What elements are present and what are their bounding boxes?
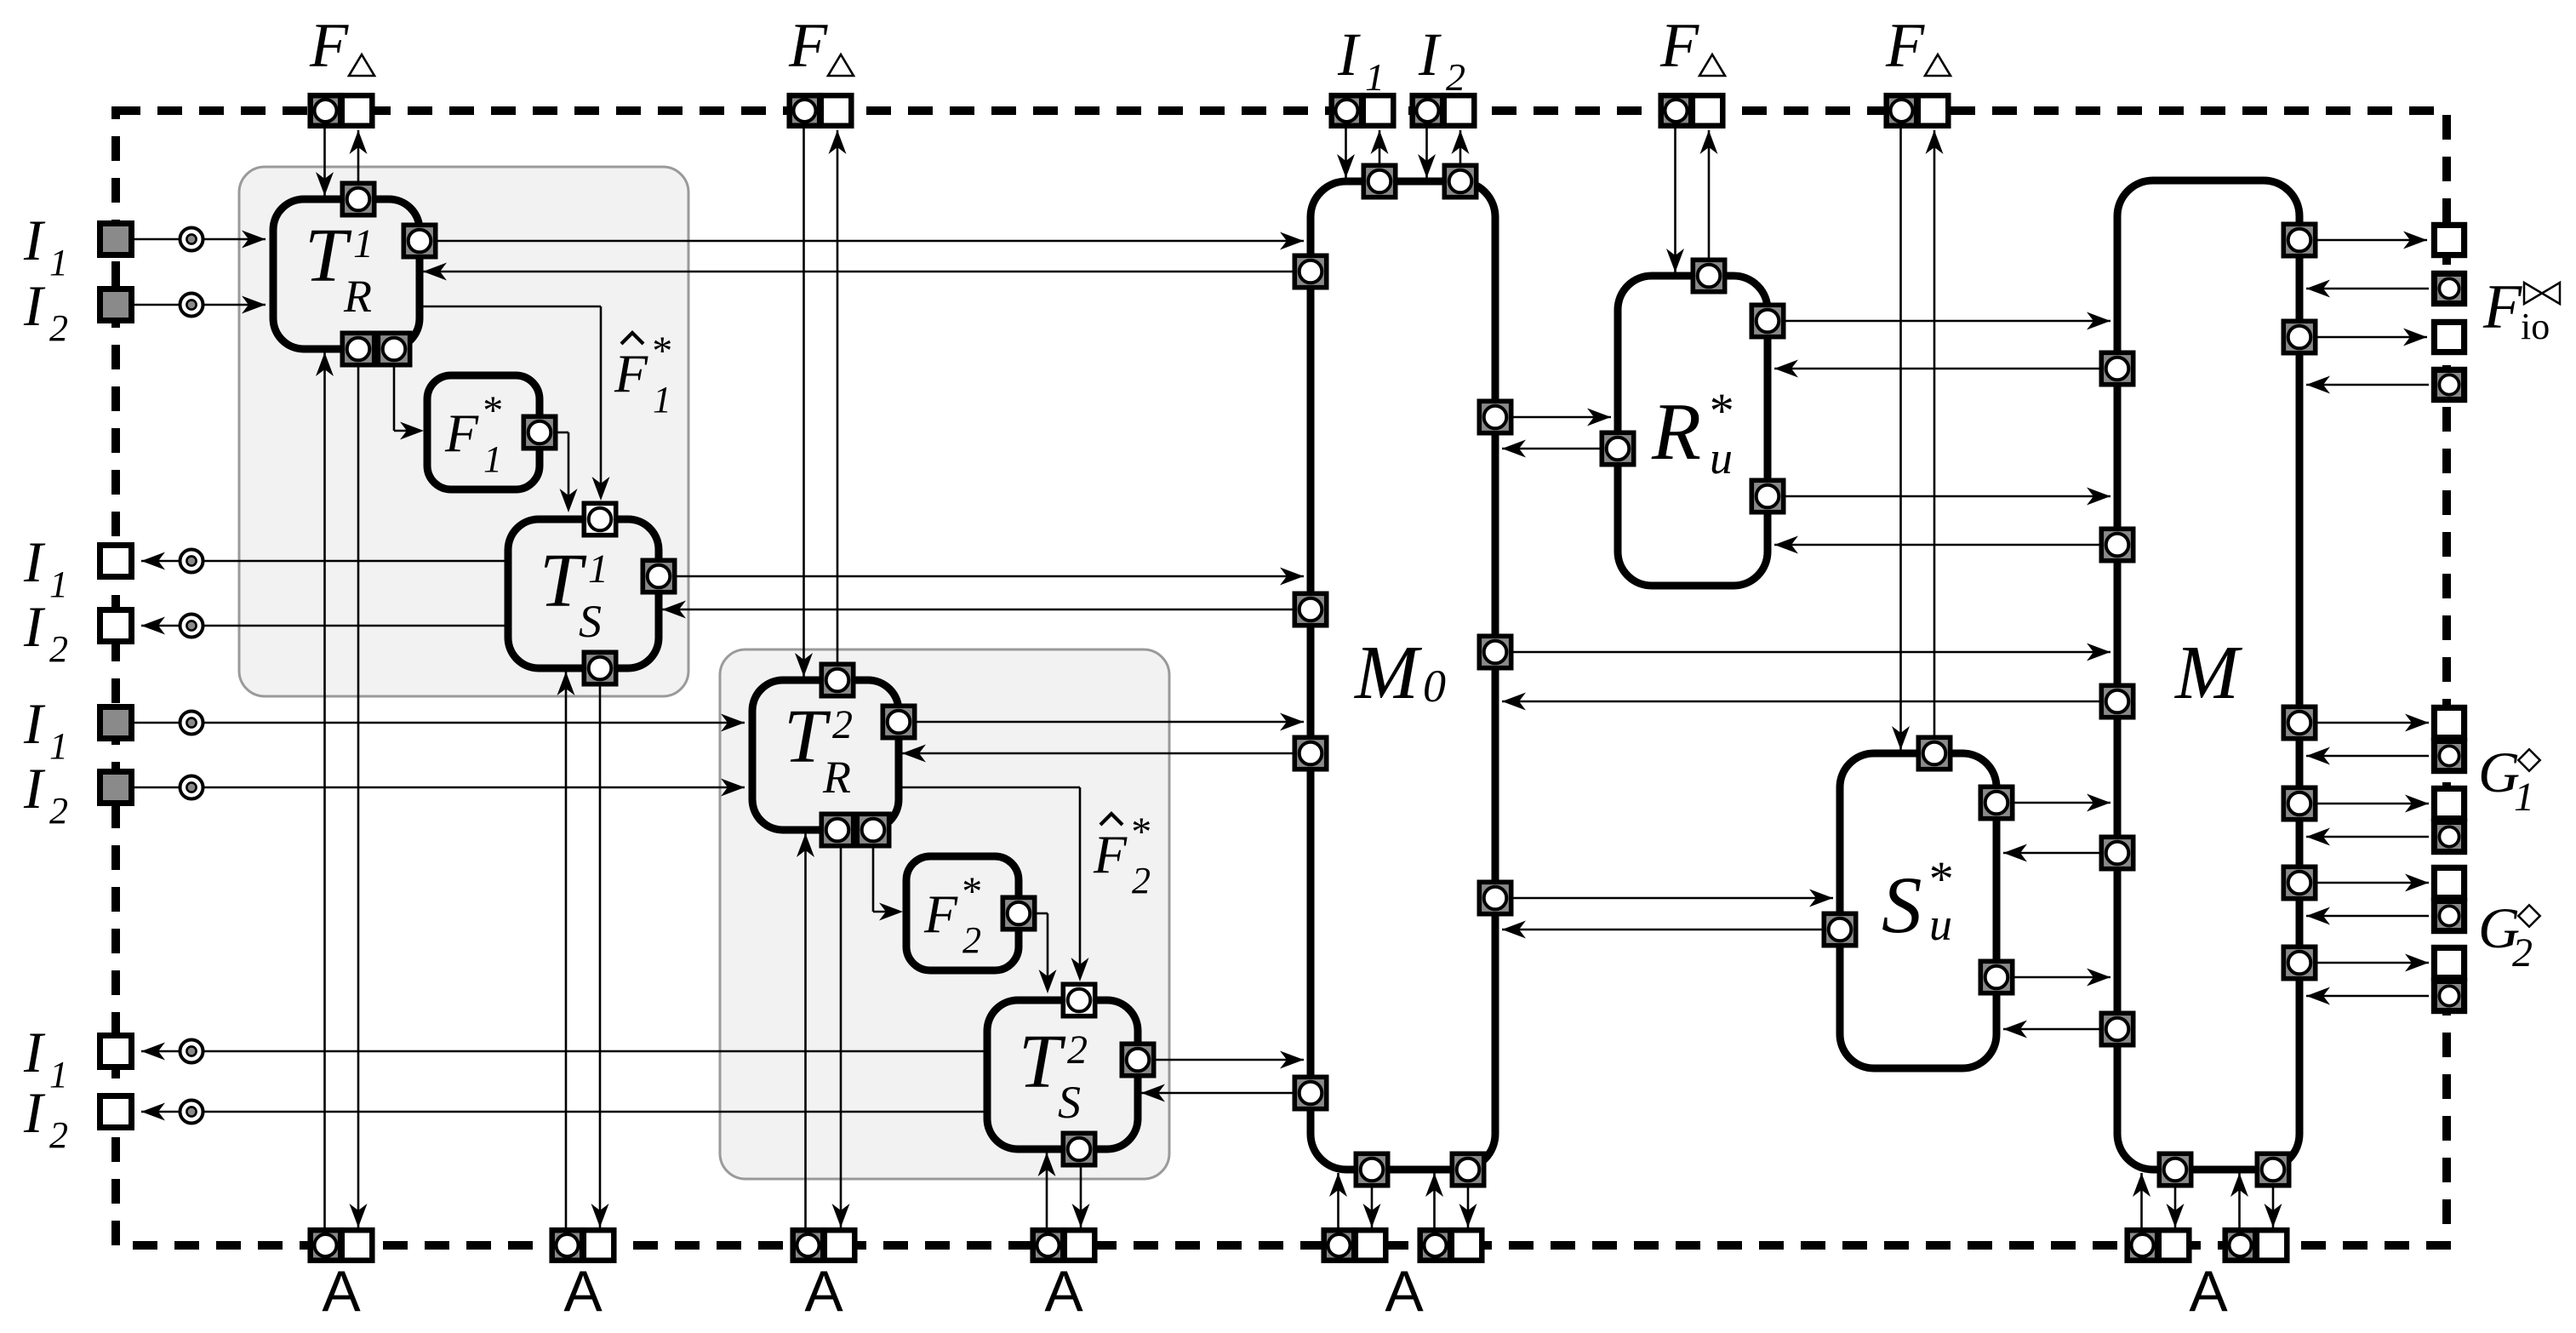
boundary port Ftri2 bbox=[790, 95, 820, 126]
svg-text:A: A bbox=[563, 1259, 603, 1324]
wire M0 down to A5 bbox=[1371, 1187, 1374, 1227]
wire M to G1 out2 bbox=[2317, 803, 2429, 805]
port TR2 bottom 1 bbox=[821, 814, 853, 845]
svg-text:R: R bbox=[1651, 386, 1701, 477]
svg-text:2: 2 bbox=[49, 1114, 68, 1156]
svg-text:0: 0 bbox=[1423, 661, 1446, 712]
svg-text:u: u bbox=[1929, 899, 1952, 950]
port M0 left 2 bbox=[1294, 593, 1326, 625]
wire Ru to M0 in bbox=[1502, 448, 1600, 450]
port M bottom 1 bbox=[2159, 1153, 2190, 1185]
boundary port G2 out1 bbox=[2434, 867, 2464, 897]
wire A2 up to TS1 bbox=[565, 672, 568, 1228]
svg-text:F: F bbox=[444, 403, 479, 463]
boundary port A3 bbox=[793, 1230, 824, 1261]
wire M0 to TS1 in bbox=[662, 609, 1293, 611]
port M0 left 4 bbox=[1294, 1077, 1326, 1108]
boundary port I2 top bbox=[1413, 95, 1443, 126]
boundary square I2 row8 bbox=[100, 1096, 132, 1128]
wire M0 up to I1top bbox=[1379, 130, 1381, 163]
svg-text:I: I bbox=[23, 529, 46, 594]
wire F2hat TR2 to TS2 port bbox=[899, 787, 1080, 789]
boundary square I1 row1 bbox=[100, 224, 132, 255]
svg-text:2: 2 bbox=[1132, 860, 1151, 901]
port M left 3 bbox=[2101, 685, 2133, 717]
port M left 5 bbox=[2101, 1013, 2133, 1044]
wire TR2 to F2 feed bbox=[872, 848, 875, 912]
svg-text:S: S bbox=[1882, 860, 1922, 950]
svg-text:I: I bbox=[23, 691, 46, 756]
boundary port A6 bbox=[1420, 1230, 1451, 1261]
wire Ru up to Ftri3 bbox=[1708, 130, 1711, 258]
svg-text:2: 2 bbox=[832, 702, 853, 747]
svg-text:1: 1 bbox=[2514, 775, 2534, 820]
port TS1 bottom bbox=[584, 652, 615, 684]
svg-text:*: * bbox=[481, 388, 501, 433]
svg-text:F: F bbox=[1093, 824, 1128, 884]
svg-text:R: R bbox=[343, 271, 372, 322]
port TS2 bottom bbox=[1063, 1133, 1094, 1164]
wire Fio to M in1 bbox=[2306, 288, 2429, 290]
svg-text:F: F bbox=[1885, 11, 1925, 81]
node odot row7 bbox=[180, 1040, 203, 1063]
wire G2 to M in2 bbox=[2306, 995, 2429, 998]
wire F2 out to TS2 bbox=[1037, 913, 1048, 915]
wire A5 up to M0 bbox=[1337, 1173, 1339, 1228]
port M left 4 bbox=[2101, 837, 2133, 868]
wire TS2 to I2 row8 bbox=[141, 1111, 987, 1113]
boundary port G1 in1 bbox=[2434, 741, 2464, 770]
port TR1 bottom 1 bbox=[342, 333, 374, 364]
machine Ru bbox=[1618, 276, 1768, 586]
port TS1 top (white) bbox=[584, 503, 615, 535]
wire M to Su in2 bbox=[2003, 1028, 2099, 1031]
boundary port A7 bbox=[2128, 1230, 2158, 1261]
svg-text:*: * bbox=[650, 329, 671, 374]
wire A1 up to TR1 bbox=[323, 352, 326, 1228]
wire I2 row6 to TR2 bbox=[132, 787, 745, 789]
port Su right 1 bbox=[1980, 787, 2012, 818]
boundary port G2 in1 bbox=[2434, 901, 2464, 930]
machine F2star bbox=[906, 856, 1019, 970]
wire TS1 down to A2 bbox=[599, 686, 602, 1227]
wire Ftri3 down to Ru bbox=[1674, 128, 1676, 272]
svg-text:S: S bbox=[1058, 1077, 1081, 1128]
wire M to Su in bbox=[2003, 852, 2099, 855]
port TR1 right bbox=[403, 225, 435, 256]
port M0 bottom 2 bbox=[1452, 1153, 1483, 1185]
svg-text:2: 2 bbox=[2512, 930, 2533, 975]
node odot row1 bbox=[180, 228, 203, 251]
svg-text:F: F bbox=[923, 884, 958, 944]
wire M0 out to M bbox=[1513, 651, 2110, 654]
svg-text:1: 1 bbox=[49, 725, 68, 767]
port TR1 bottom 2 bbox=[378, 333, 409, 364]
svg-text:2: 2 bbox=[1446, 55, 1465, 99]
wire M to G1 out1 bbox=[2317, 722, 2429, 724]
svg-text:I: I bbox=[23, 1020, 46, 1084]
svg-text:I: I bbox=[1337, 20, 1361, 89]
port Su right 2 bbox=[1980, 961, 2012, 993]
boundary port G1 out2 bbox=[2434, 788, 2464, 818]
svg-text:1: 1 bbox=[49, 1054, 68, 1096]
machine TS1 bbox=[508, 519, 659, 668]
svg-text:A: A bbox=[322, 1259, 361, 1324]
boundary port A1 bbox=[311, 1230, 341, 1261]
port TS2 right bbox=[1122, 1044, 1153, 1075]
boundary square I1 row5 bbox=[100, 707, 132, 739]
boundary square I2 row2 bbox=[100, 289, 132, 321]
machine TS2 bbox=[987, 1000, 1138, 1149]
wire G2 to M in1 bbox=[2306, 915, 2429, 918]
wire M to M0 in bbox=[1502, 701, 2099, 703]
port M0 left 1 bbox=[1294, 255, 1326, 287]
boundary port G1 in2 bbox=[2434, 821, 2464, 851]
wire I1 row5 to TR2 bbox=[132, 722, 745, 724]
svg-text:1: 1 bbox=[1365, 55, 1385, 99]
node odot row4 bbox=[180, 615, 203, 638]
wire M0 to TR2 in bbox=[902, 752, 1293, 755]
boundary port A2 bbox=[552, 1230, 583, 1261]
boundary port Fio in1 bbox=[2434, 273, 2464, 303]
wire TR1 down to A1 bbox=[357, 367, 360, 1227]
port M0 left 3 bbox=[1294, 737, 1326, 769]
boundary port G1 out1 bbox=[2434, 707, 2464, 737]
port Ru right 2 bbox=[1751, 480, 1783, 512]
wire G1 to M in1 bbox=[2306, 755, 2429, 758]
port M0 top 2 bbox=[1444, 165, 1476, 197]
wire TR1 to F1 feed bbox=[393, 367, 396, 431]
svg-text:2: 2 bbox=[1067, 1027, 1088, 1073]
wire M0 down to A6 bbox=[1467, 1187, 1470, 1227]
port M right 5 bbox=[2283, 867, 2315, 898]
svg-text:2: 2 bbox=[49, 307, 68, 349]
wire TS1 to I1 row3 bbox=[141, 560, 508, 563]
boundary port G2 out2 bbox=[2434, 947, 2464, 977]
wire TR2 down to A3 bbox=[840, 848, 842, 1227]
boundary port A4 bbox=[1033, 1230, 1064, 1261]
node odot row5 bbox=[180, 712, 203, 735]
wire Su up to Ftri4 bbox=[1933, 130, 1936, 735]
wire I1 row1 to TR1 bbox=[132, 238, 266, 241]
svg-text:1: 1 bbox=[49, 564, 68, 605]
svg-text:*: * bbox=[1129, 810, 1150, 855]
node odot row2 bbox=[180, 294, 203, 317]
svg-text:A: A bbox=[2189, 1259, 2228, 1324]
port TR2 top bbox=[821, 664, 853, 695]
wire TS1 to I2 row4 bbox=[141, 625, 508, 627]
port M0 right 2 bbox=[1479, 636, 1511, 667]
machine Su bbox=[1840, 753, 1996, 1068]
svg-text:I: I bbox=[1418, 20, 1442, 89]
wire A4 up to TS2 bbox=[1046, 1153, 1048, 1228]
boundary port Ftri4 bbox=[1887, 95, 1917, 126]
boundary port A5 bbox=[1324, 1230, 1355, 1261]
boundary square I1 row3 bbox=[100, 546, 132, 577]
wire I2top down to M0 bbox=[1425, 128, 1428, 178]
wire M0 up to I2top bbox=[1459, 130, 1462, 163]
group box 1 (T1 stage) bbox=[239, 167, 688, 696]
wire M to Ru in2 bbox=[1774, 544, 2099, 546]
svg-text:I: I bbox=[23, 594, 46, 659]
wire Ru out2 to M bbox=[1785, 495, 2110, 498]
wire TR2 out to M0 bbox=[899, 721, 1304, 724]
wire Ru out to M bbox=[1785, 320, 2110, 323]
boundary port Fio out1 bbox=[2434, 225, 2464, 255]
port M right 3 bbox=[2283, 707, 2315, 738]
port TS1 right bbox=[643, 560, 674, 592]
port M0 bottom 1 bbox=[1356, 1153, 1387, 1185]
svg-text:I: I bbox=[23, 208, 46, 272]
wire Su out to M bbox=[2014, 802, 2110, 804]
boundary port Fio out2 bbox=[2434, 322, 2464, 352]
port M right 6 bbox=[2283, 947, 2315, 978]
wire TR1 out to M0 bbox=[420, 240, 1304, 243]
port M0 right 3 bbox=[1479, 882, 1511, 913]
wire Fio to M in2 bbox=[2306, 384, 2429, 386]
port TR2 right bbox=[882, 706, 914, 737]
wire TS2 down to A4 bbox=[1080, 1167, 1082, 1227]
wire M to G2 out1 bbox=[2317, 882, 2429, 884]
boundary port Ftri1 bbox=[311, 95, 341, 126]
wire M0 to TS2 in bbox=[1141, 1092, 1293, 1095]
wire A3 up to TR2 bbox=[804, 833, 807, 1228]
machine M0 bbox=[1311, 181, 1495, 1170]
port F1star right bbox=[523, 416, 555, 448]
boundary port G2 in2 bbox=[2434, 981, 2464, 1010]
svg-text:A: A bbox=[804, 1259, 843, 1324]
port M0 top 1 bbox=[1363, 165, 1395, 197]
port TS2 top (white) bbox=[1063, 984, 1094, 1015]
port Ru right 1 bbox=[1751, 305, 1783, 336]
svg-text:1: 1 bbox=[353, 221, 374, 266]
port F2star right bbox=[1002, 897, 1034, 929]
svg-text:1: 1 bbox=[49, 242, 68, 283]
wire G1 to M in2 bbox=[2306, 836, 2429, 838]
svg-text:A: A bbox=[1385, 1259, 1424, 1324]
port M right 4 bbox=[2283, 787, 2315, 819]
wire I1top down to M0 bbox=[1345, 128, 1347, 178]
wire TR2 up to Ftri2 bbox=[837, 130, 839, 662]
node odot row3 bbox=[180, 550, 203, 573]
svg-text:F: F bbox=[788, 11, 828, 81]
svg-text:F: F bbox=[614, 343, 648, 403]
wire F1 out to TS1 bbox=[557, 432, 568, 434]
wire M to Fio out2 bbox=[2317, 336, 2427, 339]
svg-text:M: M bbox=[1353, 631, 1423, 715]
wire I2 row2 to TR1 bbox=[132, 304, 266, 306]
svg-text:I: I bbox=[23, 756, 46, 821]
node odot row8 bbox=[180, 1101, 203, 1124]
wire TS1 out to M0 bbox=[659, 575, 1304, 578]
port M right 1 bbox=[2283, 224, 2315, 255]
port Su top bbox=[1918, 737, 1950, 769]
port M left 1 bbox=[2101, 352, 2133, 384]
svg-text:*: * bbox=[1707, 383, 1732, 438]
wire M down to A7 bbox=[2174, 1187, 2177, 1227]
wire A6 up to M0 bbox=[1433, 1173, 1436, 1228]
wire TS2 to I1 row7 bbox=[141, 1050, 987, 1053]
svg-text:io: io bbox=[2521, 306, 2550, 347]
node odot row6 bbox=[180, 776, 203, 799]
svg-text:2: 2 bbox=[962, 919, 981, 961]
machine TR1 bbox=[273, 199, 420, 349]
wire M to Fio out1 bbox=[2317, 239, 2427, 242]
svg-text:2: 2 bbox=[49, 628, 68, 670]
svg-text:F: F bbox=[1659, 11, 1699, 81]
wire M0 to Ru in bbox=[1513, 416, 1611, 419]
wire M to G2 out2 bbox=[2317, 962, 2429, 964]
boundary port I1 top bbox=[1332, 95, 1362, 126]
wire M0 to Su in bbox=[1513, 897, 1833, 900]
boundary port A8 bbox=[2225, 1230, 2256, 1261]
wire F1hat TR1 to TS1 port bbox=[420, 306, 601, 308]
wire TS2 out to M0 bbox=[1138, 1059, 1304, 1061]
boundary port Ftri3 bbox=[1661, 95, 1692, 126]
svg-text:1: 1 bbox=[483, 438, 502, 480]
boundary square I2 row4 bbox=[100, 610, 132, 642]
port Ru left bbox=[1602, 432, 1633, 464]
svg-text:1: 1 bbox=[653, 379, 671, 420]
port M0 right 1 bbox=[1479, 401, 1511, 432]
port M right 2 bbox=[2283, 321, 2315, 352]
port M bottom 2 bbox=[2257, 1153, 2288, 1185]
port Su left bbox=[1824, 913, 1855, 945]
wire Su to M0 in bbox=[1502, 929, 1822, 931]
wire M0 to TR1 in bbox=[423, 271, 1293, 273]
svg-text:*: * bbox=[960, 869, 980, 914]
machine M bbox=[2117, 180, 2299, 1170]
wire Ftri1 down to TR1 bbox=[323, 128, 326, 196]
port TR1 top bbox=[342, 183, 374, 215]
boundary port Fio in2 bbox=[2434, 369, 2464, 399]
port M left 2 bbox=[2101, 529, 2133, 560]
port TR2 bottom 2 bbox=[857, 814, 888, 845]
svg-text:I: I bbox=[23, 1080, 46, 1145]
wire A7 up to M bbox=[2140, 1173, 2143, 1228]
wire M to Ru in bbox=[1774, 368, 2099, 370]
port Ru top bbox=[1693, 260, 1724, 291]
svg-text:2: 2 bbox=[49, 790, 68, 832]
machine F1star bbox=[427, 375, 540, 489]
svg-text:F: F bbox=[309, 11, 349, 81]
group box 2 (T2 stage) bbox=[720, 649, 1169, 1179]
svg-text:M: M bbox=[2173, 631, 2243, 715]
svg-text:u: u bbox=[1710, 432, 1733, 483]
wire TR1 up to Ftri1 bbox=[357, 130, 360, 181]
svg-text:R: R bbox=[822, 752, 851, 803]
dashed system boundary bbox=[116, 111, 2447, 1245]
svg-text:A: A bbox=[1044, 1259, 1083, 1324]
wire M down to A8 bbox=[2272, 1187, 2275, 1227]
svg-text:1: 1 bbox=[588, 546, 608, 592]
svg-text:I: I bbox=[23, 273, 46, 338]
svg-text:S: S bbox=[579, 596, 602, 647]
wire A8 up to M bbox=[2238, 1173, 2241, 1228]
wire Su out2 to M bbox=[2014, 976, 2110, 979]
wire Ftri2 down to TR2 bbox=[803, 128, 805, 677]
machine TR2 bbox=[752, 680, 899, 830]
boundary square I2 row6 bbox=[100, 772, 132, 804]
svg-text:F: F bbox=[2482, 272, 2522, 342]
boundary square I1 row7 bbox=[100, 1036, 132, 1067]
wire Ftri4 down to Su bbox=[1899, 128, 1902, 750]
